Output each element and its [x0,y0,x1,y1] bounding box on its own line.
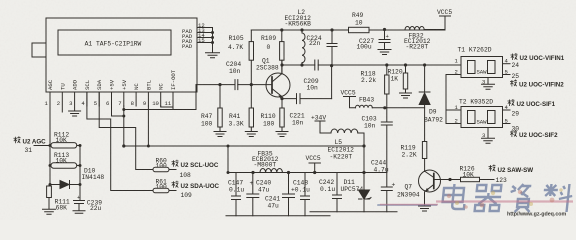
wire R126 out [480,179,495,181]
ground R47 [214,127,226,137]
ground R111 [43,198,56,215]
capacitor C242 [333,173,342,212]
diode D11 [359,173,372,212]
power +34V bar [315,121,331,133]
wire R47 top lead [219,85,221,108]
power VCC5 mid bar [344,97,356,108]
capacitor C147 [232,173,241,216]
capacitor C239 [74,201,85,211]
wire pin5 to R60 [99,92,153,170]
wire R105 lead [250,30,252,85]
pin 12 wire [197,27,213,29]
capacitor C227 [379,30,390,50]
resistor R49 [349,27,370,32]
inductor FB43 [356,105,373,108]
wire pad bus vertical [212,28,214,53]
wire R109 leads [281,30,283,74]
pin 8 stub [135,92,137,106]
power VCC5 low bar [309,163,320,173]
inductor L5 [331,129,358,133]
resistor R113 [51,163,77,168]
wire top bus [251,29,445,31]
wire pin7 +5V drop [123,106,125,146]
pin 14 wire [197,37,213,39]
pin 6 stub [111,92,113,106]
ground R110 [276,127,288,137]
wire pin1 AGC drop [49,106,51,185]
capacitor C244 [381,173,392,212]
watermark glyph QI [474,185,503,211]
wire +5V line A [124,145,364,147]
resistor R60 [153,167,169,172]
pin 3 stub [74,92,76,111]
wire FB43 to node [372,107,424,109]
capacitor C240 [247,173,259,216]
inductor FB32 [405,27,424,30]
wire IF riser [195,85,197,110]
net label U2 SDA-UOC [172,181,179,188]
wire D10 row [50,184,80,186]
wire R118 leads [386,65,388,108]
wire IF base row [196,84,271,86]
wire C103 [386,108,388,173]
net label U2 UOC-VIFIN2 [510,80,517,87]
resistor R47 [218,108,222,127]
SAW filter T1 box [461,57,503,78]
pin 7 stub [123,92,125,106]
resistor R118 [385,75,389,94]
net label U2 AGC [14,136,21,143]
resistor R109 [280,42,284,61]
wire Q7 base row [434,179,461,181]
wire R120 leads [405,65,407,93]
watermark glyph LIAO [542,184,574,212]
ground C239 [73,211,85,214]
inductor FB35 [260,169,282,173]
net label U2 UOC-VIFIN1 [511,53,518,60]
capacitor C241 [283,173,295,216]
diode D10 [60,181,70,189]
IC A1 outer body [46,18,197,92]
wire R113 out [77,165,80,167]
transistor Q7 [419,170,441,192]
wire Q7 emitter [424,191,427,206]
wire C221 row [282,98,332,100]
resistor R110 [280,108,284,127]
wire R112 out [77,145,80,147]
capacitor C204 [235,80,238,90]
watermark glyph DIAN [442,184,467,209]
pin 9 stub [147,92,149,106]
wire T1 pin3 ground [482,78,495,90]
capacitor C221 [297,94,301,104]
resistor R120 [403,73,407,89]
net label U2 SCL-UOC [172,160,179,167]
ground rail right [310,211,397,213]
IC A1 inner window [58,30,171,55]
wire pin9 drop [147,106,149,146]
wire T-coupling vertical [445,75,447,124]
wire Q1 collector [281,60,283,73]
wire T2 pin1 [446,109,461,111]
watermark underline [377,204,437,206]
rail mid [228,172,387,174]
wire R61 out [169,190,176,192]
wire +5V branch drop [227,146,229,173]
SAW filter T2 box [461,107,503,128]
net label U2 UOC-SIF2 [510,130,517,137]
wire right post [79,146,81,201]
watermark [377,184,574,212]
pin 13 wire [197,32,213,34]
resistor R119 [422,142,426,159]
ground Q7 [419,206,431,211]
wire pin10 jog [161,106,173,107]
wire pin4 to R61 [87,92,153,191]
wire T1 pin4 out [503,63,511,65]
resistor R111 [48,185,50,187]
capacitor C103 [381,122,392,125]
resistor R105 [249,42,253,61]
ground R41 [245,127,257,137]
wire T1 pin2 [446,74,461,76]
power VCC5 top bar [440,15,451,17]
wire IF row [124,109,196,111]
resistor R126 [461,177,480,181]
ground pads [206,53,220,58]
pin 15 wire [197,42,213,44]
wire T2 pin5 out [503,123,511,125]
wire C221 riser [331,66,333,99]
wire main IF bus [282,64,461,66]
wire T1 pin5 out [503,74,511,76]
ground C227 [378,50,391,55]
net label U2 SAW-SW [489,165,496,172]
resistor R112 [51,143,77,148]
wire FB32 to VCC5 [424,16,445,30]
wire AGC row [34,145,51,147]
pin 2 stub [61,92,63,112]
inductor L2 [302,30,305,65]
pin 4 stub [86,92,88,106]
wire pin6 jog [112,92,124,116]
watermark speckles [380,202,573,205]
diode D9 [419,65,430,142]
pin 5 stub [98,92,100,106]
ground rail left [226,215,330,217]
wire Q1 emitter [281,97,283,109]
transistor Q1 [266,73,290,97]
capacitor C148 [301,173,310,216]
wire T2 pin4 out [503,109,511,111]
pin 10 stub [160,92,162,106]
resistor R41 [249,108,253,127]
wire L5 out riser [358,133,364,173]
capacitor C209 [315,60,318,70]
IC A1 left tab [32,43,46,57]
capacitor C224 [327,30,337,66]
wire T2 pin3 ground [482,128,495,144]
pin 11 stub [172,92,174,110]
pin 1 stub [49,92,51,106]
wire R41 top lead [250,85,252,108]
wire R119 to Q7 [424,159,426,172]
ground pin3 [69,111,81,116]
wire T2 pin2 [446,123,461,125]
resistor R61 [153,188,169,193]
watermark glyph ZI [509,184,533,212]
ground R120 [400,93,412,98]
wire R60 out [169,169,176,171]
net label U2 UOC-SIF1 [508,99,515,106]
